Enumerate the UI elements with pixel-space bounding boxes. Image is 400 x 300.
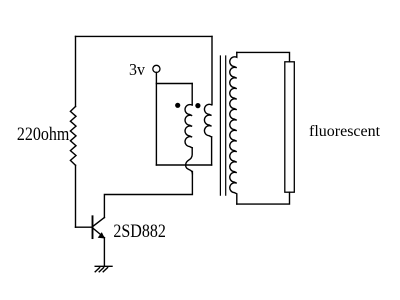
transistor Q1 2SD882 <box>93 216 105 238</box>
wire primary box bottom side <box>156 164 211 166</box>
polarity dot right <box>195 103 200 108</box>
wire lamp bottom <box>237 192 290 204</box>
transformer T1 secondary winding <box>230 52 237 204</box>
wire feedback winding bottom S-jog <box>186 148 193 174</box>
polarity dot left <box>175 103 180 108</box>
battery terminal 3v <box>153 65 160 72</box>
fluorescent tube <box>285 62 295 192</box>
wire primary winding bottom lead <box>211 137 213 165</box>
transformer core <box>220 56 225 195</box>
svg-text:220ohm: 220ohm <box>17 123 70 145</box>
wire base lead <box>76 226 93 228</box>
transformer T1 feedback winding <box>185 105 192 148</box>
ground <box>95 266 112 272</box>
wire emitter lead <box>103 238 105 267</box>
resistor R1 220ohm <box>70 107 76 166</box>
svg-text:3v: 3v <box>129 59 146 79</box>
svg-text:2SD882: 2SD882 <box>113 220 165 242</box>
wire lamp top <box>237 52 290 61</box>
wire primary box top side <box>156 83 192 85</box>
wire collector lead <box>104 172 192 218</box>
wire 3v terminal lead <box>155 72 157 165</box>
wire top supply rail <box>76 35 213 37</box>
transformer T1 primary winding <box>204 104 211 137</box>
wire left rail upper <box>75 36 77 106</box>
wire left rail lower <box>75 165 77 227</box>
transformer T1 primary winding lead <box>211 36 213 104</box>
svg-text:fluorescent: fluorescent <box>309 123 381 140</box>
transformer T1 feedback winding lead <box>191 84 193 106</box>
